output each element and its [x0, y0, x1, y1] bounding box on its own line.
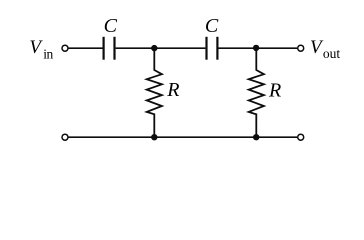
- wire top segment: C1 right plate to node A: [116, 47, 155, 49]
- wire top segment: node A to C2 left plate: [154, 47, 205, 49]
- wire bottom rail: [68, 136, 297, 138]
- node A junction dot: [151, 45, 157, 51]
- terminal circle Vin (top-left): [62, 45, 68, 51]
- resistor R1 (zigzag with connecting wires): [147, 48, 162, 137]
- svg-text:R: R: [268, 79, 281, 101]
- svg-text:C: C: [205, 15, 219, 37]
- capacitor C2 plates: [207, 37, 218, 60]
- svg-text:V: V: [29, 37, 43, 58]
- terminal circle bottom-right: [298, 134, 304, 140]
- wire top segment: Vin terminal to C1 left plate: [68, 47, 102, 49]
- svg-text:R: R: [166, 79, 179, 101]
- capacitor C1 plates: [104, 37, 115, 60]
- terminal circle Vout (top-right): [298, 45, 304, 51]
- svg-text:V: V: [310, 37, 324, 58]
- resistor R2 (zigzag with connecting wires): [249, 48, 264, 137]
- bottom junction dot under R2: [253, 134, 259, 140]
- node B junction dot: [253, 45, 259, 51]
- svg-text:in: in: [43, 46, 53, 61]
- wire top segment: C2 right plate to node B: [219, 47, 257, 49]
- terminal circle bottom-left: [62, 134, 68, 140]
- wire top segment: node B to Vout terminal: [256, 47, 297, 49]
- bottom junction dot under R1: [151, 134, 157, 140]
- svg-text:out: out: [323, 46, 341, 61]
- svg-text:C: C: [104, 15, 118, 37]
